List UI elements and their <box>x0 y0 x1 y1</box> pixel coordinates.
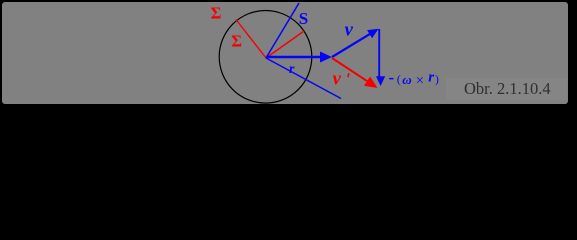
vector r horizontal blue arrow <box>266 56 322 59</box>
svg-text:ω: ω <box>402 72 411 87</box>
wire: blue S axis line <box>266 3 299 58</box>
svg-text:(: ( <box>397 74 401 86</box>
svg-text:v: v <box>345 21 354 41</box>
vector -(omega x r) small blue down arrow <box>376 76 385 86</box>
svg-text:Obr. 2.1.10.4: Obr. 2.1.10.4 <box>464 79 551 98</box>
label -(omega x r) <box>389 78 393 80</box>
svg-text:r: r <box>289 62 295 77</box>
gray panel <box>2 2 568 104</box>
wire: red radius line upper-left <box>236 20 266 59</box>
wire: blue vertical line <box>378 29 380 77</box>
wire: blue r line to lower right <box>266 58 341 99</box>
svg-text:): ) <box>435 74 439 86</box>
svg-text:r: r <box>428 70 434 86</box>
svg-text:×: × <box>416 73 424 89</box>
svg-text:S: S <box>299 9 308 28</box>
vector v' red arrow <box>332 58 369 82</box>
svg-text:Σ: Σ <box>211 3 222 22</box>
label v prime tick <box>348 73 349 77</box>
svg-text:v: v <box>333 69 342 89</box>
black frame background <box>0 0 577 106</box>
circle (system boundary) <box>219 11 312 104</box>
label plate behind caption <box>446 78 567 100</box>
wire: red radius line upper-right <box>266 31 304 58</box>
svg-text:Σ: Σ <box>231 32 242 51</box>
vector v blue arrow <box>332 33 371 57</box>
